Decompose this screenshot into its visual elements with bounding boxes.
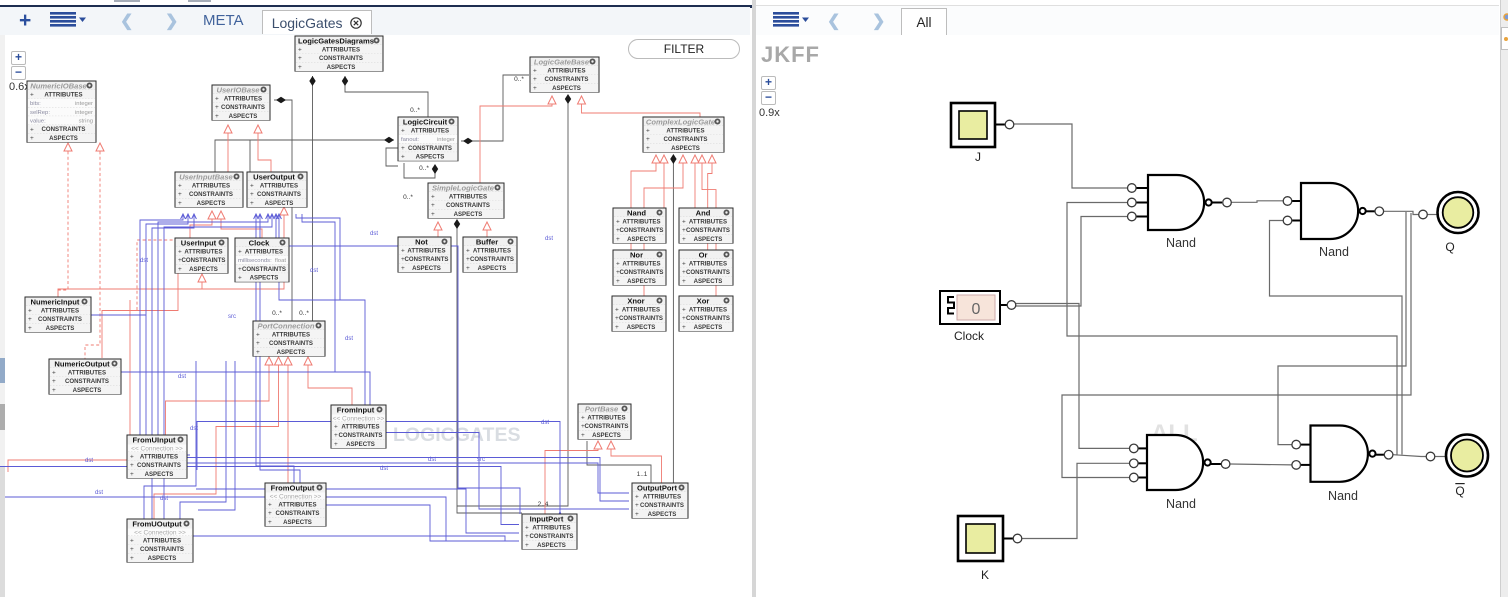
class box LogicGatesDiagrams bbox=[295, 36, 383, 71]
wire: blue pointer long bbox=[187, 463, 629, 493]
wire: blue pointer long bbox=[187, 458, 629, 502]
wire: Q feedback to G4 in1 bbox=[1278, 212, 1406, 445]
class box Nand bbox=[613, 208, 666, 243]
wire: blue pointer bbox=[152, 214, 194, 519]
output Q bbox=[1419, 210, 1428, 219]
wire: blue pointer long bbox=[193, 536, 519, 541]
class box OutputPort bbox=[632, 483, 688, 518]
svg-text:J: J bbox=[975, 150, 981, 164]
wire: blue pointer long bbox=[196, 489, 519, 533]
NAND gate G1 bbox=[1148, 175, 1204, 230]
svg-text:0: 0 bbox=[972, 301, 981, 318]
wire: blue pointer bbox=[279, 214, 365, 405]
class box Or bbox=[679, 250, 733, 285]
wire: containment UserIOBase->PortConnection trunk bbox=[274, 100, 292, 321]
wire: gates->ComplexLogicGate bundle bbox=[631, 158, 656, 250]
wire: containment LogicCircuit self loop bbox=[404, 163, 435, 178]
class box Xor bbox=[679, 296, 733, 331]
NAND gate G2 bbox=[1301, 183, 1358, 239]
input J bbox=[951, 103, 995, 147]
wire: containment LogicCircuit->LogicGateBase bbox=[461, 75, 529, 141]
wire: Not->SimpleLogicGate bbox=[437, 230, 439, 237]
wire: blue pointer long bbox=[0, 467, 519, 525]
wire: ComplexLogicGate->LogicGateBase bbox=[582, 99, 701, 117]
left zoom controls bbox=[11, 51, 26, 65]
wire: blue lines right of UserOutput bbox=[296, 214, 340, 300]
NAND gate G4 bbox=[1311, 426, 1368, 482]
class box UserIOBase bbox=[212, 85, 270, 120]
class box FromUOutput bbox=[127, 519, 193, 562]
wire: K to G3 in2 bbox=[1022, 463, 1130, 538]
svg-text:Nand: Nand bbox=[1319, 245, 1349, 259]
wire: blue pointer long bbox=[326, 505, 519, 541]
gate G3 input stubs/pins bbox=[1136, 447, 1148, 449]
wire: blue elbows into FromUOutput bbox=[144, 361, 196, 519]
right toolbar icons bbox=[773, 12, 813, 28]
wire: FromUInput->PortConnection bbox=[166, 360, 270, 435]
JKFF title bbox=[761, 42, 820, 68]
gate G4 input stubs/pins bbox=[1300, 444, 1311, 446]
svg-text:Nand: Nand bbox=[1166, 236, 1196, 250]
wire: FromInput->PortConnection bbox=[308, 360, 352, 405]
blue arrows into InputPort bbox=[523, 522, 528, 527]
wire: containment LogicCircuit left loop bbox=[386, 148, 398, 166]
top browser strip remnants bbox=[0, 0, 1508, 5]
left toolbar icons bbox=[19, 9, 31, 33]
class box And bbox=[679, 208, 733, 243]
wire: InputPort->PortBase bbox=[545, 448, 598, 514]
svg-text:Clock: Clock bbox=[954, 329, 985, 343]
svg-text:Q: Q bbox=[1455, 484, 1464, 498]
class box FromUInput bbox=[127, 435, 187, 478]
wire: red left vertical long bbox=[8, 300, 130, 472]
right toolbar bbox=[756, 5, 1499, 36]
list icon left bbox=[50, 12, 90, 28]
right strip bbox=[1500, 0, 1508, 597]
wire: NumericInput->UserInput bbox=[201, 277, 203, 289]
left meta diagram bbox=[0, 0, 755, 597]
wire: FromOutput->PortConnection bbox=[287, 360, 289, 483]
wire: blue pointer bbox=[260, 214, 300, 483]
wire: G1 out to G2 in1 bbox=[1232, 201, 1285, 203]
class box Buffer bbox=[463, 237, 517, 272]
class box Xnor bbox=[612, 296, 666, 331]
NAND gate G3 bbox=[1147, 435, 1203, 490]
wire: blue pointer bbox=[276, 214, 520, 514]
class box LogicCircuit bbox=[398, 117, 458, 161]
filter button bbox=[628, 39, 740, 59]
class box NumericOutput bbox=[49, 359, 121, 394]
wire: blue pointer bbox=[158, 214, 268, 435]
wire: SimpleLogicGate->LogicGateBase bbox=[480, 99, 552, 183]
navy divider bar bbox=[0, 5, 755, 8]
wire: containment LogicGatesDiagrams->LogicCircuit bbox=[345, 76, 428, 117]
wire: Buffer->SimpleLogicGate bbox=[486, 230, 488, 237]
class box Not bbox=[398, 237, 451, 272]
wire: NumericInput long red bbox=[58, 213, 284, 297]
class box FromInput bbox=[331, 405, 386, 448]
wire: containment trunk from LogicGateBase bottom bbox=[457, 97, 568, 506]
wire: G2 out to Q bbox=[1384, 211, 1419, 214]
wire: Q feedback to G3 in3 bbox=[1062, 213, 1411, 478]
wire: FromUOutput->PortConnection bbox=[154, 360, 279, 519]
wire: G4 out to Qbar bbox=[1393, 455, 1426, 457]
class box UserOutput bbox=[247, 172, 307, 207]
wire: OutputPort->PortBase bbox=[611, 448, 662, 484]
input K bbox=[958, 516, 1003, 561]
left edge scroll marks bbox=[0, 358, 5, 383]
class box Nor bbox=[613, 250, 666, 285]
wire: blue pointer bbox=[164, 214, 272, 519]
svg-text:Nand: Nand bbox=[1166, 497, 1196, 511]
wire: blue pointer long bbox=[197, 422, 560, 515]
wire: containment SimpleLogicGate down trunk bbox=[457, 222, 522, 513]
class box NumericInput bbox=[25, 297, 91, 332]
wire: containment LogicGatesDiagrams->PortConnection trunk bbox=[312, 76, 314, 321]
svg-text:Q: Q bbox=[1445, 240, 1454, 254]
wire: J to G1 bbox=[1014, 124, 1128, 188]
svg-text:K: K bbox=[981, 568, 989, 582]
class box ComplexLogicGate bbox=[643, 117, 724, 152]
clock component bbox=[940, 291, 1000, 324]
wire: blue pointer long bbox=[386, 433, 629, 510]
wire: UserOutput->UserIOBase bbox=[258, 128, 271, 172]
wire: OutputPort containment link bbox=[587, 441, 651, 484]
class box UserInput bbox=[175, 238, 228, 273]
gate G1 input stubs/pins bbox=[1136, 187, 1149, 189]
panel divider bbox=[752, 0, 756, 597]
wire: clock to G1 in3 bbox=[1016, 217, 1128, 307]
output Qbar bbox=[1426, 452, 1435, 461]
active tab LogicGates bbox=[262, 10, 372, 34]
class box Clock bbox=[235, 238, 289, 282]
class box UserInputBase bbox=[175, 172, 243, 207]
right zoom controls bbox=[761, 76, 776, 90]
wire: blue pointer bbox=[256, 214, 294, 483]
wire: NumericInput->NumericIOBase dashed bbox=[58, 146, 68, 297]
svg-text:Nand: Nand bbox=[1328, 489, 1358, 503]
class box PortConnection bbox=[253, 321, 325, 356]
wire: NumericOutput red bbox=[102, 273, 178, 358]
wire: G3 out to G4 in2 bbox=[1231, 463, 1293, 466]
class box FromOutput bbox=[265, 483, 326, 526]
gate G2 input stubs/pins bbox=[1291, 200, 1302, 202]
wire: UserInputBase->UserIOBase bbox=[227, 128, 229, 172]
wire: clock to G3 in1 bbox=[1016, 304, 1130, 449]
wire: Qbar feedback to G2 in2 bbox=[1270, 221, 1403, 455]
wire: containment userboxes->LogicCircuit bbox=[215, 140, 394, 172]
wire: NumericOutput->NumericIOBase dashed bbox=[85, 146, 100, 359]
class box NumericIOBase bbox=[27, 81, 96, 142]
wire: Qbar feedback to G1 in2 bbox=[1067, 203, 1397, 455]
class box SimpleLogicGate bbox=[428, 183, 504, 218]
wire: blue pointer bbox=[146, 214, 188, 435]
class box PortBase bbox=[578, 404, 631, 439]
wire: blue pointer long bbox=[0, 497, 519, 541]
wire: blue pointer bbox=[140, 214, 190, 455]
wire: UserInput->UserInputBase bbox=[190, 214, 212, 238]
class box LogicGateBase bbox=[530, 57, 599, 92]
left toolbar bbox=[0, 7, 750, 36]
wire: blue src to NumericInput bbox=[91, 314, 146, 316]
containment diamonds bbox=[309, 76, 315, 86]
wire: containment trunk between gate columns bbox=[672, 157, 674, 484]
class box InputPort bbox=[522, 514, 577, 549]
wire: Clock->UserInputBase bbox=[221, 214, 262, 238]
